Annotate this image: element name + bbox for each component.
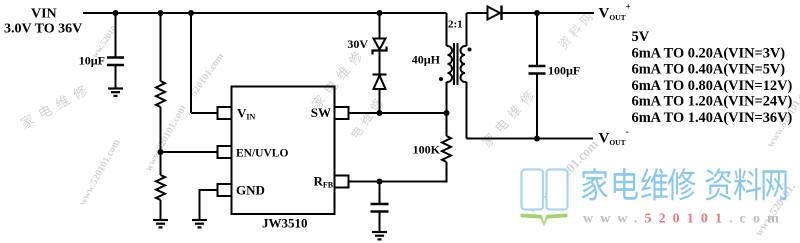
ground C1 [108, 89, 123, 96]
net VIN top rail [83, 12, 447, 14]
pin SW box [335, 107, 349, 119]
pin RFB box [335, 176, 349, 188]
watermark diag text 2 [77, 137, 123, 208]
svg-text:6mA TO 1.40A(VIN=36V): 6mA TO 1.40A(VIN=36V) [632, 110, 793, 126]
wire GND pin [200, 190, 218, 220]
pin GND box [218, 184, 232, 196]
watermark diag text 7 [480, 89, 535, 148]
wire D1-D2 [379, 51, 381, 75]
wire EN/UVLO [161, 151, 218, 153]
svg-text:100µF: 100µF [548, 64, 580, 78]
svg-text:www.520101.com: www.520101.com [583, 212, 786, 227]
label T1 2:1 [448, 19, 463, 31]
node VOUT+/C2 [534, 10, 540, 16]
label C2 100uF [548, 64, 580, 78]
wire primary top [446, 13, 448, 46]
wire 100K bottom [349, 162, 447, 182]
wire C2 bottom [536, 74, 538, 139]
label D1 30V [347, 37, 368, 51]
svg-text:JW3510: JW3510 [262, 216, 308, 231]
wire C1 bottom [115, 65, 117, 89]
label pin RFB [314, 174, 334, 190]
svg-text:SW: SW [311, 105, 331, 120]
svg-text:10µF: 10µF [79, 54, 105, 68]
ground C3 [372, 232, 387, 239]
diode D2 [373, 75, 387, 90]
wire secondary bottom [466, 82, 468, 139]
svg-text:GND: GND [236, 183, 265, 198]
svg-text:100K: 100K [413, 143, 441, 157]
wire D2 bottom [379, 89, 381, 113]
node SW/zener [377, 110, 383, 116]
watermark diag text 5 [310, 50, 364, 111]
phase dot secondary [468, 48, 472, 52]
wire C2 top [536, 13, 538, 66]
capacitor C3 [371, 204, 389, 212]
label output specs [632, 29, 793, 126]
node J4 (VIN rail / zener) [377, 10, 383, 16]
watermark diag text 1 [19, 84, 89, 130]
wire primary bottom [446, 82, 448, 113]
wire zener top [379, 13, 381, 39]
node VOUT-/C2 [534, 136, 540, 142]
svg-text:6mA TO 0.20A(VIN=3V): 6mA TO 0.20A(VIN=3V) [632, 46, 786, 62]
watermark diag text 6 [350, 97, 384, 140]
ground U1 [192, 220, 207, 227]
pin EN/UVLO box [218, 146, 232, 158]
node J3 (VIN rail / VIN pin) [188, 10, 194, 16]
node divider tap [158, 149, 164, 155]
svg-text:EN/UVLO: EN/UVLO [236, 148, 288, 160]
wire C1 top [115, 13, 117, 58]
node J1 (VIN rail / C1) [113, 10, 119, 16]
label R3 100K [413, 143, 441, 157]
watermark diag text 12 [765, 81, 800, 150]
ground R2 [153, 220, 168, 227]
label VOUT- [599, 126, 629, 147]
label VIN title [4, 7, 82, 37]
label C1 10uF [79, 54, 105, 68]
capacitor C2 100uF [529, 66, 546, 74]
wire C3 top [379, 182, 381, 205]
svg-text:2:1: 2:1 [448, 19, 463, 31]
watermark diag text 9 [523, 136, 601, 216]
pin VIN box [218, 107, 232, 119]
transformer T1 core [454, 43, 458, 85]
label pin GND [236, 183, 265, 198]
label VOUT+ [599, 1, 631, 22]
wire secondary top [466, 13, 468, 46]
transformer T1 primary 40uH [447, 46, 453, 82]
watermark diag text 3 [143, 103, 189, 174]
resistor R3 100K [442, 136, 451, 162]
svg-text:VIN: VIN [31, 7, 57, 22]
watermark logo url www.520101.com [583, 212, 786, 227]
wire R1-R2 [160, 107, 162, 175]
wire secondary-diode [467, 12, 488, 14]
transformer T1 secondary [461, 46, 467, 82]
watermark diag text 10 [753, 181, 798, 239]
wire VOUT+ rail [502, 12, 595, 14]
wire VIN pin horizontal [191, 112, 218, 114]
zener D1 30V [373, 39, 387, 55]
resistor R2 [156, 175, 165, 200]
svg-text:6mA TO 0.40A(VIN=5V): 6mA TO 0.40A(VIN=5V) [632, 62, 786, 78]
svg-text:40µH: 40µH [412, 53, 441, 67]
watermark diag text 4 [188, 51, 226, 99]
node J2 (VIN rail / divider) [158, 10, 164, 16]
diode D3 [488, 6, 502, 21]
wire VOUT- rail [467, 138, 594, 140]
svg-text:6mA TO 0.80A(VIN=12V): 6mA TO 0.80A(VIN=12V) [632, 78, 793, 94]
svg-text:3.0V TO 36V: 3.0V TO 36V [4, 22, 82, 37]
resistor R1 [156, 81, 165, 107]
wire VIN pin vertical [190, 13, 192, 113]
svg-text:30V: 30V [347, 37, 368, 51]
op-amp U1 JW3510 body [232, 87, 335, 215]
wire divider top [160, 13, 162, 81]
wire 100K top [446, 113, 448, 136]
wire SW [349, 112, 447, 114]
watermark logo text 家电维修资料网 [582, 168, 787, 200]
watermark logo book icon [521, 170, 568, 227]
watermark diag text 8 [557, 11, 594, 50]
wire R2 bottom [160, 200, 162, 220]
wire C3 bottom [379, 212, 381, 233]
svg-text:6mA TO 1.20A(VIN=24V): 6mA TO 1.20A(VIN=24V) [632, 93, 793, 109]
capacitor C1 10uF [107, 58, 124, 66]
node SW/primary [444, 110, 450, 116]
label U1 JW3510 [262, 216, 308, 231]
phase dot primary [439, 77, 443, 81]
label pin SW [311, 105, 331, 120]
label T1 40uH [412, 53, 441, 67]
label pin VIN [237, 106, 256, 122]
node RFB/C3 [377, 179, 383, 185]
watermark diag text 11 [85, 23, 119, 65]
label pin EN/UVLO [236, 148, 288, 160]
svg-text:5V: 5V [632, 29, 650, 45]
